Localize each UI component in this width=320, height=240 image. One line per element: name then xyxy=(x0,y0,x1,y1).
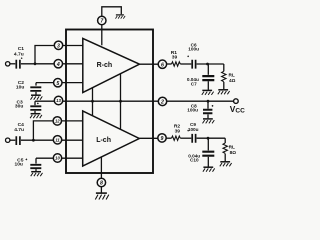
svg-text:100u: 100u xyxy=(188,47,199,52)
wire R-ch output to pin 6 xyxy=(140,63,159,65)
capacitor C3 xyxy=(15,99,41,113)
svg-text:11: 11 xyxy=(55,138,60,143)
IC package box xyxy=(66,30,153,174)
svg-text:C7: C7 xyxy=(191,81,197,86)
op-amp R-ch xyxy=(83,38,140,92)
svg-text:4.7u: 4.7u xyxy=(14,127,24,133)
wire R-ch to L-ch connector left xyxy=(92,88,94,116)
wire pin 7 to ground bend xyxy=(102,7,122,16)
wire L-ch output to pin 9 xyxy=(139,137,158,139)
svg-text:VCC: VCC xyxy=(230,104,245,114)
ground under C10 xyxy=(203,167,215,172)
ground under pin 8 xyxy=(95,193,109,199)
pin 13 xyxy=(54,96,62,104)
svg-text:C1: C1 xyxy=(18,46,25,52)
pin 5 xyxy=(54,79,62,87)
svg-text:9: 9 xyxy=(161,136,164,142)
svg-text:8: 8 xyxy=(100,181,103,187)
wire R-ch to L-ch connector right xyxy=(120,74,122,129)
capacitor C5 xyxy=(14,157,41,171)
capacitor C2 xyxy=(16,80,41,95)
input terminal IN-L wire xyxy=(10,139,15,141)
pin 9 xyxy=(158,134,166,142)
svg-text:10: 10 xyxy=(55,156,60,161)
op-amp L-ch xyxy=(83,111,140,166)
svg-text:L-ch: L-ch xyxy=(96,137,111,144)
node junction center line right xyxy=(119,100,122,103)
capacitor C10 xyxy=(188,138,214,167)
ground under C8 xyxy=(203,119,215,124)
wire branch to pin 12 xyxy=(33,121,82,140)
svg-text:12: 12 xyxy=(55,119,60,124)
svg-text:30u: 30u xyxy=(15,103,23,109)
wire C6 to load xyxy=(197,63,224,65)
svg-text:4: 4 xyxy=(56,62,60,68)
power terminal VCC xyxy=(230,99,245,115)
svg-text:6: 6 xyxy=(161,62,164,68)
node junction at C1 branch xyxy=(34,62,37,65)
ground under C2 xyxy=(31,95,43,100)
svg-text:C10: C10 xyxy=(190,158,199,163)
pin 12 xyxy=(53,117,61,125)
input terminal IN-L xyxy=(6,138,10,142)
pin 7 xyxy=(98,16,106,24)
svg-text:4Ω: 4Ω xyxy=(229,78,236,83)
wire branch to pin 3 xyxy=(35,46,83,64)
wire R1 to C6 xyxy=(180,63,191,65)
pin 3 xyxy=(54,41,62,49)
capacitor C7 xyxy=(187,64,214,90)
resistor R2 xyxy=(172,124,181,141)
svg-text:39: 39 xyxy=(172,54,178,60)
input terminal IN-R wire xyxy=(10,63,15,65)
wire C4 to pin 11 and L-ch input xyxy=(21,139,83,141)
wire C9 to load xyxy=(197,137,226,139)
svg-text:4.7u: 4.7u xyxy=(14,52,24,58)
wire L-ch output to pin 8 xyxy=(100,157,102,179)
svg-text:10u: 10u xyxy=(16,84,24,90)
resistor R1 xyxy=(171,50,181,66)
capacitor C8 xyxy=(187,101,213,118)
wire pin 8 to ground xyxy=(100,187,102,193)
resistor RL (L-ch load) xyxy=(223,138,236,161)
wire pin 9 to R2 xyxy=(166,137,171,139)
svg-text:100u: 100u xyxy=(187,107,198,112)
resistor RL (R-ch load) xyxy=(222,64,236,89)
pin 11 xyxy=(53,136,61,144)
ground at pin 7 bend xyxy=(115,15,125,19)
wire pin 7 into IC xyxy=(101,25,103,46)
wire R2 to C9 xyxy=(180,137,191,139)
svg-text:RL: RL xyxy=(229,145,235,150)
svg-text:10u: 10u xyxy=(14,162,22,168)
wire pin 6 to R1 xyxy=(167,63,172,65)
svg-text:3: 3 xyxy=(57,43,60,49)
wire pin 10 line xyxy=(36,157,83,159)
capacitor C1 xyxy=(14,46,24,69)
pin 4 xyxy=(54,60,62,68)
wire C1 to pin 4 and R-ch input xyxy=(21,63,83,65)
capacitor C9 xyxy=(187,122,198,143)
wire center line pin13 to pin2 to VCC xyxy=(35,100,234,102)
node junction at C4 branch xyxy=(32,139,35,142)
node junction center line left xyxy=(91,100,94,103)
pin 6 xyxy=(158,60,166,68)
svg-text:2: 2 xyxy=(160,100,164,106)
ground under C5 xyxy=(31,172,43,177)
capacitor C6 xyxy=(187,42,199,68)
pin 8 xyxy=(97,178,105,186)
ground under C7 xyxy=(202,90,214,95)
capacitor C4 xyxy=(14,122,24,145)
node junction C10 tap xyxy=(207,137,210,140)
ground under RL L-ch xyxy=(220,162,232,167)
wire pin 5 line xyxy=(36,82,83,84)
svg-text:R-ch: R-ch xyxy=(97,62,113,69)
svg-text:5: 5 xyxy=(56,81,59,87)
svg-text:13: 13 xyxy=(56,98,61,103)
svg-text:100u: 100u xyxy=(188,127,199,132)
pin 2 xyxy=(158,97,166,105)
input terminal IN-R xyxy=(6,62,10,66)
svg-text:39: 39 xyxy=(175,128,181,134)
node junction C8 tap xyxy=(207,100,210,103)
node junction C7 tap xyxy=(206,63,209,66)
ground under C3 xyxy=(30,114,42,119)
pin 10 xyxy=(53,154,61,162)
svg-text:8Ω: 8Ω xyxy=(230,150,237,155)
ground under RL R-ch xyxy=(218,90,230,95)
